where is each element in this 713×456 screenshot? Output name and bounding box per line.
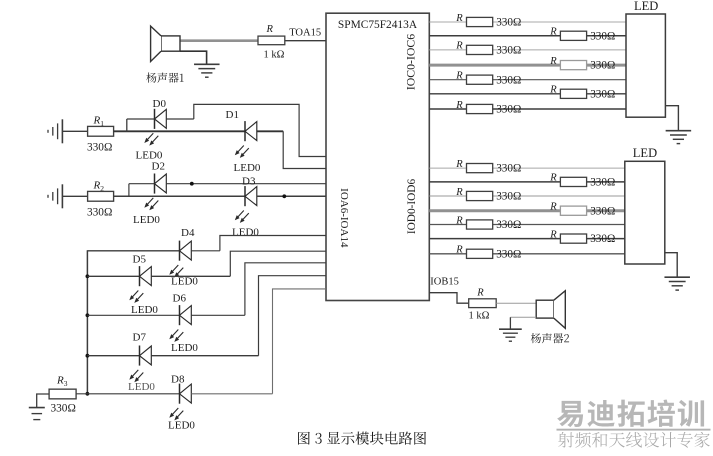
svg-text:330Ω: 330Ω: [590, 88, 615, 100]
svg-text:TOA15: TOA15: [289, 28, 321, 39]
svg-text:LED0: LED0: [171, 342, 198, 354]
svg-text:330Ω: 330Ω: [590, 177, 615, 189]
svg-text:330Ω: 330Ω: [87, 206, 112, 218]
svg-text:R: R: [549, 85, 557, 96]
svg-text:330Ω: 330Ω: [496, 163, 521, 175]
svg-text:D5: D5: [133, 253, 147, 265]
svg-text:330Ω: 330Ω: [496, 248, 521, 260]
svg-text:1 kΩ: 1 kΩ: [264, 50, 285, 61]
svg-text:R: R: [476, 288, 484, 299]
svg-text:IOD0-IOD6: IOD0-IOD6: [406, 179, 418, 235]
svg-text:IOB15: IOB15: [430, 277, 459, 288]
svg-text:330Ω: 330Ω: [496, 219, 521, 231]
svg-text:330Ω: 330Ω: [496, 74, 521, 86]
svg-text:SPMC75F2413A: SPMC75F2413A: [338, 19, 418, 31]
svg-text:R: R: [549, 202, 557, 213]
svg-text:R: R: [455, 187, 463, 198]
svg-text:LED0: LED0: [171, 275, 198, 287]
svg-text:D4: D4: [181, 227, 195, 239]
svg-text:R: R: [455, 71, 463, 82]
svg-text:LED0: LED0: [128, 381, 155, 393]
svg-text:330Ω: 330Ω: [496, 17, 521, 29]
svg-text:D0: D0: [153, 98, 167, 110]
svg-text:R: R: [549, 173, 557, 184]
svg-text:LED0: LED0: [131, 304, 158, 316]
svg-text:330Ω: 330Ω: [496, 104, 521, 116]
svg-text:D1: D1: [226, 109, 239, 121]
svg-text:IOA6-IOA14: IOA6-IOA14: [338, 188, 350, 248]
svg-text:R: R: [455, 13, 463, 24]
svg-text:330Ω: 330Ω: [590, 205, 615, 217]
svg-text:1 kΩ: 1 kΩ: [469, 311, 490, 322]
svg-text:R: R: [549, 56, 557, 67]
svg-text:D2: D2: [152, 160, 165, 172]
svg-text:R: R: [266, 24, 274, 35]
svg-text:LED: LED: [634, 0, 658, 13]
svg-text:R: R: [455, 159, 463, 170]
svg-text:D6: D6: [173, 293, 187, 305]
svg-text:D7: D7: [133, 332, 147, 344]
svg-text:R: R: [455, 41, 463, 52]
svg-text:IOC0-IOC6: IOC0-IOC6: [404, 34, 418, 90]
svg-text:R: R: [455, 100, 463, 111]
svg-text:R: R: [455, 245, 463, 256]
svg-text:LED0: LED0: [232, 226, 259, 238]
svg-text:330Ω: 330Ω: [87, 141, 112, 153]
svg-text:D8: D8: [171, 373, 185, 385]
svg-text:LED: LED: [633, 146, 657, 160]
svg-text:LED0: LED0: [234, 162, 261, 174]
svg-text:330Ω: 330Ω: [496, 191, 521, 203]
svg-text:330Ω: 330Ω: [590, 233, 615, 245]
svg-text:LED0: LED0: [168, 420, 195, 432]
svg-text:330Ω: 330Ω: [590, 60, 615, 72]
svg-text:330Ω: 330Ω: [496, 45, 521, 57]
svg-text:R: R: [549, 27, 557, 38]
svg-text:D3: D3: [242, 175, 256, 187]
svg-text:R: R: [455, 215, 463, 226]
svg-text:R: R: [549, 229, 557, 240]
svg-text:330Ω: 330Ω: [590, 30, 615, 42]
svg-text:LED0: LED0: [133, 214, 160, 226]
svg-text:330Ω: 330Ω: [51, 402, 76, 414]
